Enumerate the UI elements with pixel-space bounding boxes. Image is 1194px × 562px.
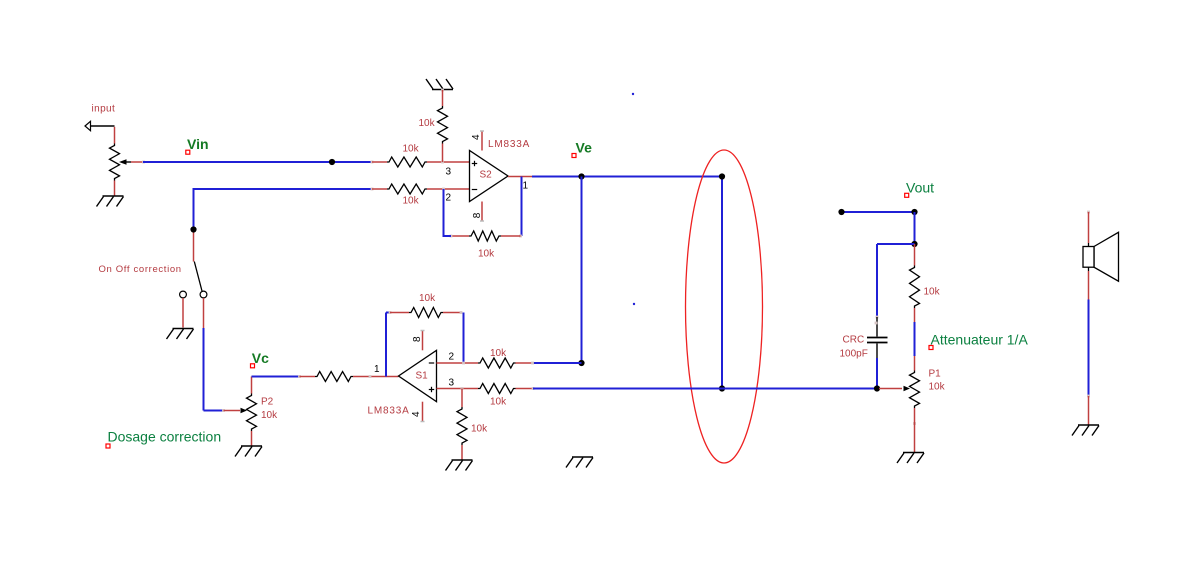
pin marker R5 left <box>298 375 301 378</box>
power pin 4 tick S1 <box>421 421 425 423</box>
wire input stub <box>114 127 116 144</box>
svg-text:P1: P1 <box>929 369 942 380</box>
potentiometer input pot <box>110 144 132 181</box>
wire S1 fb stub <box>386 312 390 314</box>
pin marker R2 top <box>441 89 444 92</box>
ground speaker <box>1072 425 1099 436</box>
pin marker speaker bottom <box>1087 395 1090 398</box>
wire R10 top lead <box>914 244 916 266</box>
wire R3 right lead <box>427 188 470 190</box>
ground input <box>97 196 124 207</box>
wire cap bottom blue <box>876 358 878 389</box>
wire S1 pin3 lead <box>437 388 479 390</box>
node Vout square <box>905 193 909 197</box>
svg-text:10k: 10k <box>929 382 946 393</box>
pin marker fb left <box>450 235 453 238</box>
wire P1 wiper red <box>879 388 902 390</box>
junction dot Vout right <box>911 209 917 215</box>
power pin 8 tick <box>480 220 484 222</box>
wire pin2 node down <box>443 189 445 236</box>
pin marker R5 right <box>369 375 372 378</box>
wire pot wiper <box>131 161 143 163</box>
svg-text:10k: 10k <box>490 397 507 408</box>
wire S1 fb vertical left <box>385 313 387 377</box>
wire to P1 red <box>914 356 916 371</box>
wire speaker bottom black <box>1088 267 1090 271</box>
wire Vout top rail <box>842 211 915 213</box>
wire switch right down red <box>203 298 205 328</box>
wire ellipse vertical <box>721 177 723 389</box>
svg-text:input: input <box>92 104 116 115</box>
wire fb left blue stub <box>443 235 452 237</box>
wire R3 left lead <box>372 188 387 190</box>
svg-text:10k: 10k <box>403 144 420 155</box>
wire R1 left lead <box>372 161 387 163</box>
svg-text:100pF: 100pF <box>840 349 868 360</box>
wire P1 bottom <box>914 408 916 452</box>
op-amp S2 minus <box>472 189 477 191</box>
wire S1 fb vertical right <box>463 313 465 364</box>
wire S1 fb left lead <box>390 312 409 314</box>
pin marker P2 wiper <box>222 409 225 412</box>
power pin 8 tick S1 <box>421 330 425 332</box>
svg-text:Vout: Vout <box>906 180 934 196</box>
wire pot bottom <box>114 181 116 196</box>
svg-text:10k: 10k <box>261 410 278 421</box>
wire S1 pin2 lead <box>437 362 479 364</box>
wire R1 right lead <box>427 161 470 163</box>
wire R5 left lead <box>300 376 316 378</box>
pin marker cap terminal <box>875 322 878 325</box>
pin marker wiper <box>142 161 145 164</box>
pin marker R7 right <box>531 362 534 365</box>
wire R8 right lead <box>516 388 534 390</box>
svg-text:10k: 10k <box>490 348 507 359</box>
svg-text:3: 3 <box>449 378 455 389</box>
switch lever <box>194 262 202 292</box>
pin marker R8 right <box>532 387 535 390</box>
wire fb left lead <box>451 235 469 237</box>
svg-text:2: 2 <box>446 193 452 204</box>
op-amp S2 plus <box>472 161 477 166</box>
svg-text:10k: 10k <box>924 287 941 298</box>
pin marker R1 left <box>371 161 374 164</box>
ground P1 <box>897 453 924 464</box>
stray dot 2 <box>633 303 635 305</box>
wire S2 out to ellipse <box>532 176 722 178</box>
wire switch top red <box>193 230 195 262</box>
svg-text:Attenuateur 1/A: Attenuateur 1/A <box>931 331 1029 347</box>
node pin3 marker <box>441 161 444 164</box>
wire R10 bottom lead <box>914 308 916 322</box>
wire node to cap top <box>877 243 915 245</box>
ground inverted top <box>426 79 453 90</box>
wire pin2 rail blue <box>194 188 372 190</box>
stray dot 1 <box>632 93 634 95</box>
wire Ve vertical <box>581 177 583 364</box>
wire cap top vertical <box>876 244 878 317</box>
wire S1 fb right lead <box>443 312 461 314</box>
svg-text:4: 4 <box>411 411 422 417</box>
junction dot switch <box>190 226 196 232</box>
power pin 4 wire S1 <box>422 402 424 421</box>
svg-text:1: 1 <box>523 181 529 192</box>
pin marker S1 fb left <box>389 311 392 314</box>
junction dot Vin rail <box>329 159 335 165</box>
wire cap bottom black lead <box>876 344 878 359</box>
pin marker speaker top <box>1087 211 1090 214</box>
wire R5 right lead <box>353 376 399 378</box>
wire R2 bottom lead <box>442 144 444 163</box>
resistor R7 10k <box>478 358 516 368</box>
pin marker S1 pin2 <box>462 362 465 365</box>
svg-text:4: 4 <box>471 134 482 140</box>
resistor R1 10k <box>387 157 427 167</box>
wire S2 output lead <box>508 176 532 178</box>
wire R2 top lead <box>442 90 444 106</box>
wire Ve bottom to S1 <box>533 362 582 364</box>
pin marker S1 fb right <box>460 311 463 314</box>
svg-text:10k: 10k <box>419 293 436 304</box>
op-amp S1 plus <box>429 387 434 392</box>
wire Vout down <box>914 212 916 244</box>
svg-text:8: 8 <box>412 336 423 342</box>
junction dot ellipse bottom <box>719 385 725 391</box>
wire Vc rail blue <box>252 376 300 378</box>
junction dot cap bottom <box>874 385 880 391</box>
speaker LS1 <box>1083 232 1119 281</box>
input source arrow <box>85 121 115 130</box>
node Ve square <box>572 154 576 158</box>
power pin 8 wire S1 <box>422 331 424 350</box>
svg-text:CRC: CRC <box>843 335 865 346</box>
svg-text:10k: 10k <box>471 424 488 435</box>
svg-text:On Off correction: On Off correction <box>99 264 182 275</box>
wire speaker top <box>1088 212 1090 243</box>
power pin 4 tick <box>480 130 484 132</box>
svg-text:10k: 10k <box>478 249 495 260</box>
wire switch left down <box>182 298 184 328</box>
ground P2 <box>235 446 262 457</box>
pin marker mid <box>913 422 916 425</box>
svg-text:1: 1 <box>374 364 380 375</box>
svg-text:S1: S1 <box>416 371 429 382</box>
wire to P2 wiper red <box>224 410 241 412</box>
wire to P2 wiper blue <box>204 410 224 412</box>
ground R9 <box>446 460 473 471</box>
wire R7 right lead <box>516 362 533 364</box>
junction dot Vout node <box>911 241 917 247</box>
wire fb vertical <box>521 177 523 237</box>
pin marker R3 left <box>371 188 374 191</box>
ground switch <box>167 329 194 340</box>
ellipse highlight <box>686 150 763 463</box>
junction pin2 node <box>442 188 445 191</box>
resistor R6 10k feedback <box>409 308 443 318</box>
op-amp U-S2 triangle <box>470 151 509 202</box>
resistor R2 10k vertical <box>438 106 448 144</box>
wire speaker blue <box>1088 300 1090 396</box>
wire mid blue <box>914 322 916 356</box>
wire Vc stub <box>251 377 253 394</box>
node Attenuateur square <box>929 346 933 350</box>
wire fb right lead <box>501 235 521 237</box>
wire bottom rail <box>533 388 877 390</box>
switch contact left <box>180 291 187 298</box>
power pin 8 wire <box>481 202 483 221</box>
wire R9 top lead <box>461 389 463 408</box>
wire speaker top black <box>1088 243 1090 247</box>
node S1 pin3 <box>461 387 464 390</box>
op-amp S1 minus <box>429 362 434 364</box>
switch contact right <box>200 291 207 298</box>
junction dot Vout left <box>838 209 844 215</box>
wire cap top black lead <box>876 317 878 337</box>
svg-text:P2: P2 <box>261 397 274 408</box>
svg-text:LM833A: LM833A <box>488 139 530 150</box>
svg-text:10k: 10k <box>419 118 436 129</box>
svg-text:LM833A: LM833A <box>368 406 410 417</box>
junction dot Ve <box>578 173 584 179</box>
wire Vin rail <box>143 161 372 163</box>
potentiometer P1 <box>904 371 920 409</box>
svg-text:8: 8 <box>472 212 483 218</box>
wire speaker ground red <box>1088 396 1090 425</box>
resistor R8 10k <box>478 384 516 394</box>
svg-text:3: 3 <box>446 167 452 178</box>
wire R9 bottom lead <box>461 445 463 460</box>
potentiometer P2 <box>241 394 257 432</box>
junction dot ellipse top <box>719 173 725 179</box>
junction dot Ve bottom <box>578 360 584 366</box>
svg-text:Dosage correction: Dosage correction <box>108 429 222 445</box>
resistor R4 10k feedback <box>469 231 501 241</box>
node Vin square <box>186 150 190 154</box>
op-amp U-S1 triangle <box>399 350 437 401</box>
power pin 4 wire <box>481 132 483 151</box>
wire speaker bottom red <box>1088 271 1090 300</box>
svg-text:10k: 10k <box>403 196 420 207</box>
ground standalone <box>566 457 593 468</box>
pin marker fb right <box>519 235 522 238</box>
svg-text:Ve: Ve <box>576 139 593 155</box>
capacitor CRC plates <box>867 338 888 343</box>
svg-text:2: 2 <box>449 352 455 363</box>
wire switch right down blue <box>203 328 205 411</box>
node Vc square <box>251 364 255 368</box>
resistor R9 10k vertical <box>457 407 467 445</box>
pin marker cap top <box>876 316 879 319</box>
wire pin2 corner down <box>193 188 195 230</box>
resistor R10 10k vertical <box>910 266 920 309</box>
resistor R5 <box>315 372 353 382</box>
resistor R3 10k <box>387 184 427 194</box>
wire P2 bottom <box>251 431 253 446</box>
node Dosage square <box>106 444 110 448</box>
svg-text:S2: S2 <box>480 170 493 181</box>
